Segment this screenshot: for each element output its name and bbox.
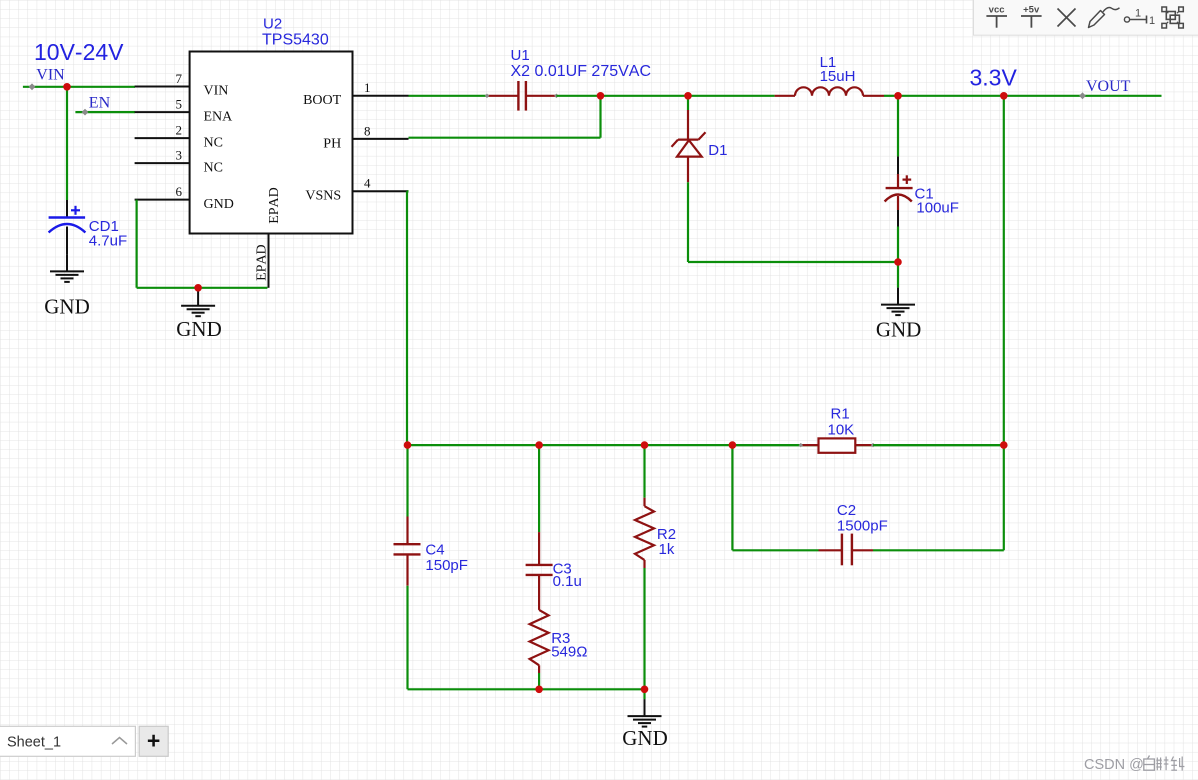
svg-text:100uF: 100uF xyxy=(916,199,959,216)
wire C1 node to VOUT node xyxy=(898,95,1004,97)
ground (bottom) xyxy=(644,699,646,716)
node junction BOOT/PH xyxy=(597,92,605,100)
svg-text:1: 1 xyxy=(1135,8,1141,20)
toolbar icon +5V flag xyxy=(1021,4,1042,27)
svg-text:4.7uF: 4.7uF xyxy=(89,232,127,249)
capacitor U1 X2 0.01UF 275VAC xyxy=(487,95,518,97)
node junction bus/C4 xyxy=(404,441,412,449)
wire C3 top xyxy=(538,445,540,532)
node junction VOUT riser xyxy=(1000,92,1008,100)
inductor L1 15uH xyxy=(775,95,795,97)
wire VSNS to riser xyxy=(407,190,409,192)
capacitor C2 1500pF xyxy=(819,549,842,551)
ground (CD1) xyxy=(66,254,68,271)
net flag anchor VOUT xyxy=(1079,92,1086,99)
wire bus to R1 xyxy=(732,444,800,446)
U2 pin 5 (ENA) xyxy=(135,111,190,113)
svg-text:0.1u: 0.1u xyxy=(553,573,582,590)
svg-text:10V-24V: 10V-24V xyxy=(34,39,124,65)
svg-text:GND: GND xyxy=(622,726,668,750)
U2 pin 2 (NC) xyxy=(135,137,190,139)
node junction VIN/CD1 xyxy=(63,83,71,91)
diode D1 (zener) xyxy=(687,96,689,110)
svg-text:7: 7 xyxy=(176,71,183,86)
U2 pin 3 (NC) xyxy=(135,162,190,164)
wire BOOT to U1 xyxy=(409,95,488,97)
node junction C1/D1/GND xyxy=(894,258,902,266)
U2 pin 7 (VIN) xyxy=(135,86,190,88)
svg-text:EPAD: EPAD xyxy=(255,244,270,281)
svg-text:+: + xyxy=(147,728,160,754)
wire EPAD horizontal xyxy=(137,287,268,289)
node junction D1 tap xyxy=(684,92,692,100)
node junction EPAD/GND xyxy=(194,284,202,292)
toolbar icon netport xyxy=(1124,8,1155,28)
node junction bus/C2 xyxy=(729,441,737,449)
capacitor C1 100uF (polarized) xyxy=(897,156,899,174)
svg-text:1500pF: 1500pF xyxy=(837,517,888,534)
wire D1 anode down xyxy=(687,182,689,262)
wire PH riser xyxy=(599,96,601,138)
svg-text:VIN: VIN xyxy=(36,66,65,83)
svg-text:VIN: VIN xyxy=(204,84,229,99)
svg-text:U2: U2 xyxy=(263,16,282,33)
wire R1 to VOUT riser xyxy=(873,444,1004,446)
svg-text:GND: GND xyxy=(204,197,234,212)
wire C4 top xyxy=(406,445,408,516)
svg-text:6: 6 xyxy=(176,184,183,199)
svg-text:2: 2 xyxy=(176,123,183,138)
wire node to D1 xyxy=(601,95,689,97)
wire gnd stub xyxy=(897,262,899,288)
svg-text:vcc: vcc xyxy=(989,4,1005,15)
U2 pin 1 (BOOT) xyxy=(353,95,409,97)
resistor R3 549ohm xyxy=(530,610,549,665)
svg-text:549Ω: 549Ω xyxy=(551,644,587,661)
svg-text:5: 5 xyxy=(176,97,183,112)
wire VOUT rail xyxy=(1004,95,1162,97)
svg-text:X2 0.01UF 275VAC: X2 0.01UF 275VAC xyxy=(511,63,652,80)
svg-text:D1: D1 xyxy=(708,142,727,159)
svg-text:VOUT: VOUT xyxy=(1086,78,1131,95)
U2 EPAD pin stub xyxy=(268,234,270,288)
svg-text:1: 1 xyxy=(1149,15,1155,27)
U2 pin 8 (PH) xyxy=(353,138,409,140)
wire C4 bottom xyxy=(406,586,408,690)
node junction rail/C3 xyxy=(535,686,543,694)
wire bottom rail xyxy=(408,688,645,690)
svg-text:GND: GND xyxy=(176,317,222,341)
node junction bus/R2 xyxy=(641,441,649,449)
wire VIN rail xyxy=(23,86,135,88)
svg-text:150pF: 150pF xyxy=(425,557,468,574)
svg-text:BOOT: BOOT xyxy=(303,93,342,108)
node junction bus/VOUT riser xyxy=(1000,441,1008,449)
net flag anchor EN xyxy=(82,109,89,116)
svg-text:NC: NC xyxy=(204,135,223,150)
wire D1 to C1 gnd node xyxy=(688,261,898,263)
svg-text:4: 4 xyxy=(364,176,371,191)
svg-text:U1: U1 xyxy=(511,47,530,64)
toolbar icon symbol group xyxy=(1162,7,1183,28)
svg-text:1k: 1k xyxy=(659,541,675,558)
net flag anchor VIN xyxy=(29,83,36,90)
svg-text:GND: GND xyxy=(44,294,90,318)
svg-text:C4: C4 xyxy=(425,542,444,559)
resistor R1 10K (box style) xyxy=(801,444,819,446)
svg-text:3: 3 xyxy=(176,148,183,163)
ground (EPAD) xyxy=(197,289,199,306)
node junction rail/GND xyxy=(641,686,649,694)
ground (C1) xyxy=(897,288,899,305)
toolbar icon VCC flag xyxy=(986,4,1007,27)
svg-text:NC: NC xyxy=(204,160,223,175)
wire U1 to node xyxy=(556,95,600,97)
wire C2 left riser xyxy=(731,445,733,550)
wire GND pin6 down xyxy=(136,200,138,288)
wire L1 to C1 node xyxy=(884,95,898,97)
capacitor C3 0.1u xyxy=(538,532,540,565)
svg-text:10K: 10K xyxy=(828,422,855,439)
svg-text:EPAD: EPAD xyxy=(267,187,282,224)
wire VOUT riser xyxy=(1003,96,1005,551)
svg-text:15uH: 15uH xyxy=(820,68,856,85)
svg-text:+5v: +5v xyxy=(1023,4,1040,15)
svg-text:1: 1 xyxy=(364,80,371,95)
wire PH horizontal xyxy=(409,137,601,139)
capacitor CD1 4.7uF (polarized, blue) xyxy=(66,200,68,218)
svg-text:3.3V: 3.3V xyxy=(970,65,1018,91)
wire R2 top xyxy=(643,445,645,498)
toolbar icon no-connect X xyxy=(1058,9,1076,27)
svg-text:R1: R1 xyxy=(831,405,850,422)
wire C1 top xyxy=(897,96,899,157)
wire R2 bottom xyxy=(643,568,645,689)
svg-text:CSDN @: CSDN @ xyxy=(1084,757,1144,773)
toolbar panel xyxy=(974,0,1198,35)
wire C1 bottom xyxy=(897,227,899,263)
U2 pin 4 (VSNS) xyxy=(353,190,409,192)
svg-text:EN: EN xyxy=(89,94,111,111)
toolbar icon probe pen xyxy=(1089,8,1120,28)
svg-text:GND: GND xyxy=(876,317,922,341)
capacitor C4 150pF xyxy=(406,517,408,545)
svg-text:ENA: ENA xyxy=(204,109,234,124)
wire D1 tap to L1 xyxy=(688,95,775,97)
node junction bus/C3 xyxy=(535,441,543,449)
wire EN xyxy=(75,111,135,113)
wire feedback riser xyxy=(406,191,408,445)
sheet tab bar xyxy=(0,726,168,756)
resistor R2 1k xyxy=(643,498,645,507)
wire R3 bottom xyxy=(538,673,540,689)
svg-text:VSNS: VSNS xyxy=(305,189,341,204)
svg-text:Sheet_1: Sheet_1 xyxy=(7,735,61,751)
svg-text:PH: PH xyxy=(323,136,341,151)
node junction L1/C1 xyxy=(894,92,902,100)
svg-text:8: 8 xyxy=(364,123,371,138)
wire feedback bus xyxy=(407,444,1004,446)
wire VIN junction down to CD1 xyxy=(66,87,68,200)
wire C2 right xyxy=(873,549,1004,551)
U2 pin 6 (GND) xyxy=(135,199,190,201)
svg-text:TPS5430: TPS5430 xyxy=(262,32,329,49)
wire C2 left xyxy=(732,549,818,551)
IC U2 TPS5430 body xyxy=(190,52,353,234)
wire gnd stub xyxy=(643,689,645,699)
